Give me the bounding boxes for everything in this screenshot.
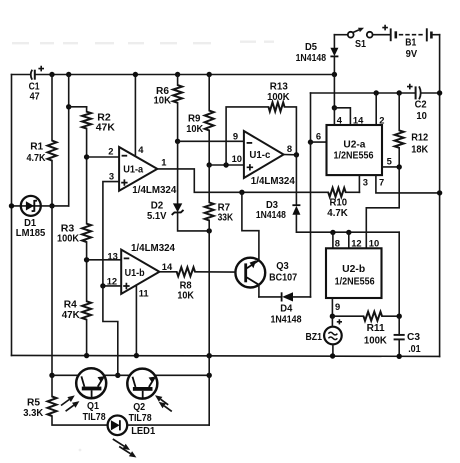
resistor R12 (395, 130, 404, 147)
label R1 value 4.7K (27, 153, 46, 164)
label R11 value 100K (364, 336, 388, 347)
svg-text:10K: 10K (154, 96, 172, 107)
label R3 value 100K (57, 234, 79, 245)
led LED1 (108, 416, 128, 436)
wire pin10 line (209, 164, 244, 166)
svg-text:1: 1 (161, 157, 166, 168)
svg-text:1/4LM324: 1/4LM324 (251, 176, 295, 187)
resistor R1 (48, 141, 57, 161)
svg-text:18K: 18K (411, 145, 429, 156)
resistor R3 (82, 224, 91, 242)
label D3 (266, 200, 278, 211)
node junction left rail / D1 line (9, 203, 14, 208)
svg-text:TIL78: TIL78 (129, 413, 152, 424)
node junction line A / pin2 riser (374, 90, 379, 95)
svg-text:U1-b: U1-b (125, 268, 145, 279)
svg-text:10: 10 (232, 153, 242, 164)
light arrows into Q2 (155, 395, 172, 411)
wire pin10 node to R7 (208, 165, 210, 202)
wire pin12 riser (348, 232, 350, 248)
node junction R1-line / sensor row (49, 373, 54, 378)
svg-text:D4: D4 (280, 303, 292, 314)
svg-text:10K: 10K (186, 124, 204, 135)
wire D3 to 8-12 line (296, 215, 399, 232)
node junction jog / sensor row (115, 373, 120, 378)
node junction R11 / C3 (397, 314, 402, 319)
wire R2 jog (69, 106, 87, 108)
switch S1 (348, 28, 373, 38)
wire pin8 riser (332, 232, 334, 248)
label Q2 value TIL78 (129, 413, 152, 424)
label C2 (415, 100, 427, 111)
svg-text:10: 10 (369, 237, 379, 248)
wire pin11 stub (135, 285, 137, 355)
svg-text:Q2: Q2 (133, 402, 145, 413)
wire LED row right (127, 424, 209, 426)
wire D4 to pin6 vertical (293, 296, 311, 298)
node junction U1-a output line / Q3 branch (239, 190, 244, 195)
label pin 10 U2-b (369, 237, 379, 248)
label R13 (270, 82, 288, 93)
op-amp U1-a (119, 147, 157, 191)
wire pin3 riser (358, 175, 360, 192)
resistor R7 (205, 202, 214, 220)
wire pin10 riser U2-b (365, 208, 367, 249)
svg-text:47: 47 (30, 91, 40, 102)
svg-text:14: 14 (353, 115, 364, 126)
svg-text:U2-b: U2-b (342, 264, 365, 275)
label R11 (367, 323, 385, 334)
node junction top rail / line B (66, 72, 71, 77)
svg-text:1N4148: 1N4148 (256, 210, 286, 221)
wire sensor row left (52, 374, 78, 376)
wire pin5 net down-left jog to pin10 riser (366, 167, 399, 208)
label R4 (64, 300, 77, 311)
label C3 (407, 332, 420, 343)
label pin 3 U2-a (363, 177, 368, 188)
label R12 value 18K (411, 145, 429, 156)
wire C3 bottom stub (398, 339, 400, 356)
svg-text:1/2NE556: 1/2NE556 (335, 276, 375, 287)
wire R1 to D1 line (51, 161, 53, 206)
capacitor C1 (31, 66, 44, 80)
wire line A corner down to pin6 (310, 93, 312, 142)
wire pin7 riser and line to right rail (376, 175, 440, 193)
svg-text:R9: R9 (188, 114, 201, 125)
label R6 (156, 86, 169, 97)
svg-text:12: 12 (351, 237, 361, 248)
wire S1 to battery (373, 34, 390, 36)
wire C3 top stub (398, 316, 400, 335)
wire R1 branch upper (51, 75, 53, 141)
node junction line B / R2 branch (66, 104, 71, 109)
svg-text:BZ1: BZ1 (306, 332, 323, 343)
resistor R2 (82, 112, 91, 129)
scan artifact band (12, 41, 274, 452)
label D4 (280, 303, 292, 314)
label U1-b (125, 268, 145, 279)
resistor R5 (48, 397, 57, 417)
svg-text:5: 5 (387, 155, 392, 166)
svg-text:8: 8 (287, 143, 292, 154)
label R10 value 4.7K (327, 208, 348, 219)
node junction pin12 riser (346, 230, 351, 235)
svg-text:4.7K: 4.7K (27, 153, 46, 164)
wire 8-12 line corner down to R11/C3 node (398, 232, 400, 316)
label pin 7 U2-a (379, 177, 384, 188)
svg-text:C3: C3 (407, 332, 420, 343)
label pin 2 U2-a (379, 115, 384, 126)
svg-text:1/2NE556: 1/2NE556 (334, 150, 374, 161)
label R9 (188, 114, 201, 125)
label D5 (305, 42, 317, 53)
wire D1 line (12, 205, 69, 207)
node junction pin2 tap (84, 154, 89, 159)
svg-text:Q3: Q3 (276, 261, 289, 272)
svg-text:100K: 100K (364, 336, 388, 347)
phototransistor Q2 TIL78 (127, 369, 157, 399)
svg-text:1/4LM324: 1/4LM324 (131, 243, 175, 254)
svg-text:.01: .01 (408, 344, 421, 355)
node junction pin10 / R9 (207, 162, 212, 167)
label pin 3 (109, 171, 114, 182)
label R7 value 33K (218, 213, 234, 224)
node junction R9 / top rail (207, 72, 212, 77)
buzzer BZ1 (324, 319, 342, 344)
label C1 (29, 82, 40, 93)
svg-text:BC107: BC107 (269, 272, 297, 283)
label pin 2 (108, 145, 113, 156)
node junction U1-c out / R13 / D3 (294, 152, 299, 157)
wire R12 top stub (398, 93, 400, 130)
label U2-a 1/2NE556 (334, 150, 374, 161)
svg-text:9: 9 (335, 301, 340, 312)
wire R5 bottom to LED row (52, 416, 108, 425)
resistor R9 (205, 111, 214, 131)
transistor Q3 BC107 (235, 258, 265, 288)
resistor R13 (269, 102, 285, 111)
svg-text:8: 8 (335, 237, 340, 248)
svg-text:R11: R11 (367, 323, 385, 334)
label R10 (330, 197, 348, 208)
svg-text:9: 9 (233, 130, 238, 141)
label Q3 (276, 261, 289, 272)
wire S1 feed (334, 34, 347, 36)
svg-text:4: 4 (337, 115, 343, 126)
node junction R7-line / bottom rail (207, 353, 212, 358)
wire R10 to pin3 (346, 191, 360, 193)
wire pin6 input (311, 141, 327, 143)
diode D1 LM185 reference (21, 196, 41, 216)
svg-text:D2: D2 (151, 200, 164, 211)
label R3 (61, 223, 75, 234)
wire pin2 riser (375, 93, 377, 125)
wire BZ1 bottom stub (332, 344, 334, 356)
svg-text:3: 3 (363, 177, 368, 188)
wire R6 top stub (177, 75, 179, 86)
svg-text:S1: S1 (355, 39, 366, 50)
diode D5 1N4148 (330, 35, 338, 75)
wire R5 top stub (51, 375, 53, 396)
svg-text:7: 7 (379, 177, 384, 188)
label pin 8 U2-b (335, 237, 340, 248)
svg-text:14: 14 (162, 261, 173, 272)
capacitor C3 (394, 335, 405, 340)
wire pin2 input (87, 156, 120, 158)
wire supply line A (311, 92, 416, 94)
label BZ1 (306, 332, 323, 343)
node junction D2 jog / R7 bottom (207, 228, 212, 233)
label R9 value 10K (186, 124, 204, 135)
svg-text:5.1V: 5.1V (147, 211, 167, 222)
node junction R4 / bottom rail (84, 353, 89, 358)
wire left rail (11, 75, 13, 356)
wire right rail (439, 35, 441, 357)
svg-text:Q1: Q1 (87, 401, 99, 412)
label D1 (24, 218, 36, 229)
node junction D5 / top rail (332, 72, 337, 77)
wire R13 left vertical (226, 107, 268, 165)
label R2 (97, 113, 111, 124)
label pin 5 U2-a (387, 155, 392, 166)
op-amp U1-c (244, 131, 284, 178)
label R12 (411, 133, 428, 144)
label R2 value 47K (96, 122, 116, 133)
label pin 4 U2-a (337, 115, 343, 126)
node junction pin9 / R11 / BZ1 (330, 314, 335, 319)
label C1 value 47 (30, 91, 40, 102)
label U2-b (342, 264, 365, 275)
op-amp U1-b (121, 250, 159, 294)
svg-text:11: 11 (139, 288, 149, 299)
label pin 9 (233, 130, 238, 141)
node junction R13 / pin10 line (223, 162, 228, 167)
label U1-a (123, 164, 143, 175)
timer U2-a box (327, 125, 383, 175)
wire emitter to D4 (259, 296, 281, 298)
wire top supply rail (12, 74, 335, 76)
wire D2 to R7 bottom jog (178, 212, 210, 231)
label R13 value 100K (267, 92, 290, 103)
wire C2 to right rail (421, 92, 440, 94)
wire R9 top stub (208, 75, 210, 111)
label B1 value 9V (406, 49, 418, 60)
node junction pin4 / top rail (133, 72, 138, 77)
svg-text:12: 12 (107, 276, 117, 287)
label pin 8 (287, 143, 292, 154)
wire pin5 output (382, 166, 399, 168)
wire U1-c output (284, 154, 297, 156)
light arrows into Q1 (61, 395, 79, 411)
node junction pin11 / bottom rail (134, 353, 139, 358)
wire D5 node down to pin4 jog (333, 75, 335, 108)
label U1-c (249, 150, 270, 161)
label C2 value 10 (416, 111, 427, 122)
svg-text:10: 10 (416, 111, 427, 122)
node junction pin8 riser (330, 230, 335, 235)
label D5 value 1N4148 (296, 53, 327, 64)
label R5 (27, 398, 40, 409)
svg-text:LED1: LED1 (131, 426, 155, 437)
wire R13 right vertical (285, 107, 297, 155)
svg-text:U2-a: U2-a (343, 140, 365, 151)
label R8 value 10K (177, 291, 194, 302)
wire R11 left (332, 315, 363, 317)
svg-text:1N4148: 1N4148 (296, 53, 327, 64)
wire R9 to pin10 node (208, 130, 210, 165)
svg-text:100K: 100K (57, 234, 79, 245)
wire R7 line down to bottom rail (208, 231, 210, 356)
node junction pin12 / pin3 line (100, 283, 105, 288)
label pin 14 (162, 261, 173, 272)
label Q1 (87, 401, 99, 412)
label D1 value LM185 (16, 228, 46, 239)
node junction pin5 / R12 (397, 164, 402, 169)
svg-text:1/4LM324: 1/4LM324 (132, 185, 176, 196)
label pin 10 (232, 153, 242, 164)
label U1-c 1/4LM324 (251, 176, 295, 187)
label R6 value 10K (154, 96, 172, 107)
wire pin9 line (178, 140, 244, 142)
wire Q3 emitter down (258, 285, 260, 297)
label C3 value .01 (408, 344, 421, 355)
label R1 (30, 142, 43, 153)
svg-text:2: 2 (108, 145, 113, 156)
svg-text:U1-a: U1-a (123, 164, 143, 175)
label pin 6 (316, 131, 321, 142)
label S1 (355, 39, 366, 50)
capacitor C2 (407, 84, 421, 100)
node junction top rail / R1 line (49, 72, 54, 77)
wire pin3 input (103, 182, 119, 286)
label pin 12 (107, 276, 117, 287)
phototransistor Q1 TIL78 (76, 368, 106, 398)
wire pin14 jog (334, 108, 350, 125)
label pin 14 U2-a (353, 115, 364, 126)
wire U1-c out down to D3 (295, 155, 297, 205)
svg-text:2: 2 (379, 115, 384, 126)
label R4 value 47K (62, 310, 81, 321)
label D4 value 1N4148 (271, 315, 302, 326)
label pin 1 (161, 157, 166, 168)
wire right vertical rail-to-LED (208, 356, 210, 425)
svg-text:47K: 47K (96, 122, 116, 133)
wire U1-a output to R10 line (157, 169, 328, 192)
node junction pin4 jog (332, 105, 337, 110)
wire pin9 node to D2 (177, 141, 179, 203)
node junction pin7 line / right rail (437, 190, 442, 195)
wire R11 right (382, 315, 399, 317)
wire R1-line to Q1 row (crosses bottom rail) (51, 206, 53, 375)
label R5 value 3.3K (23, 408, 44, 419)
svg-text:100K: 100K (267, 92, 290, 103)
svg-text:U1-c: U1-c (249, 150, 270, 161)
label D3 value 1N4148 (256, 210, 286, 221)
wire pin4 supply stub (134, 75, 136, 157)
diode D3 1N4148 (292, 205, 300, 215)
wire R4 to bottom rail (86, 320, 88, 356)
label pin 4 (138, 144, 144, 155)
wire line B (68, 75, 70, 206)
svg-text:LM185: LM185 (16, 228, 46, 239)
wire R2 to R3 (86, 129, 88, 224)
svg-text:4.7K: 4.7K (327, 208, 348, 219)
resistor R8 (177, 267, 195, 276)
svg-text:4: 4 (138, 144, 144, 155)
battery B1 9V (382, 25, 439, 42)
node junction R1 / D1 line (49, 203, 54, 208)
resistor R10 (328, 188, 346, 197)
label U1-a 1/4LM324 (132, 185, 176, 196)
svg-text:D5: D5 (305, 42, 317, 53)
svg-text:3.3K: 3.3K (23, 408, 44, 419)
svg-text:C2: C2 (415, 100, 427, 111)
svg-text:1N4148: 1N4148 (271, 315, 302, 326)
svg-text:R5: R5 (27, 398, 40, 409)
wire pin9 stub (331, 298, 333, 316)
wire R6 to pin9 node (177, 103, 179, 142)
label D2 (151, 200, 164, 211)
label Q2 (133, 402, 145, 413)
node junction sensor row / right vertical (207, 373, 212, 378)
node junction pin13 tap (84, 257, 89, 262)
label U2-a (343, 140, 365, 151)
node junction pin9 / R6 / D2 (175, 139, 180, 144)
resistor R6 (173, 85, 182, 103)
wire pin4 riser (333, 108, 335, 125)
timer U2-b box (326, 248, 382, 298)
svg-text:R12: R12 (411, 133, 428, 144)
node junction pin6 (308, 139, 313, 144)
wire pin13 input (87, 259, 122, 261)
label pin 13 (107, 250, 117, 261)
diode D4 1N4148 (282, 292, 293, 301)
label Q1 value TIL78 (83, 412, 106, 423)
wire sensor row middle (104, 374, 130, 376)
svg-text:3: 3 (109, 171, 114, 182)
wire R8 to Q3 base (195, 271, 235, 273)
wire R12 to pin5 node (398, 148, 400, 167)
label R7 (218, 203, 231, 214)
svg-text:13: 13 (107, 250, 117, 261)
wire BZ1 top stub (331, 316, 333, 327)
wire pin6 vertical down to D4 (310, 142, 312, 297)
svg-text:B1: B1 (405, 37, 416, 48)
wire R3 to R4 (86, 242, 88, 301)
label R8 (180, 281, 192, 292)
label B1 (405, 37, 416, 48)
label D2 value 5.1V (147, 211, 167, 222)
wire U1-b output (159, 271, 176, 273)
node junction R6 / top rail (175, 72, 180, 77)
resistor R4 (82, 301, 91, 319)
wire pin12 jog down to sensor row (103, 286, 118, 375)
node junction C2 / right rail (437, 90, 442, 95)
node junction C3 / bottom rail (397, 354, 402, 359)
wire R7 to jog node (208, 220, 210, 231)
svg-text:R1: R1 (30, 142, 43, 153)
wire sensor row right (155, 374, 210, 376)
label LED1 (131, 426, 155, 437)
svg-text:10K: 10K (177, 291, 194, 302)
svg-text:47K: 47K (62, 310, 81, 321)
label pin 11 (139, 288, 149, 299)
label pin 12 U2-b (351, 237, 361, 248)
label pin 9 U2-b (335, 301, 340, 312)
svg-text:TIL78: TIL78 (83, 412, 106, 423)
svg-text:6: 6 (316, 131, 321, 142)
light arrows out of LED1 (113, 439, 137, 458)
